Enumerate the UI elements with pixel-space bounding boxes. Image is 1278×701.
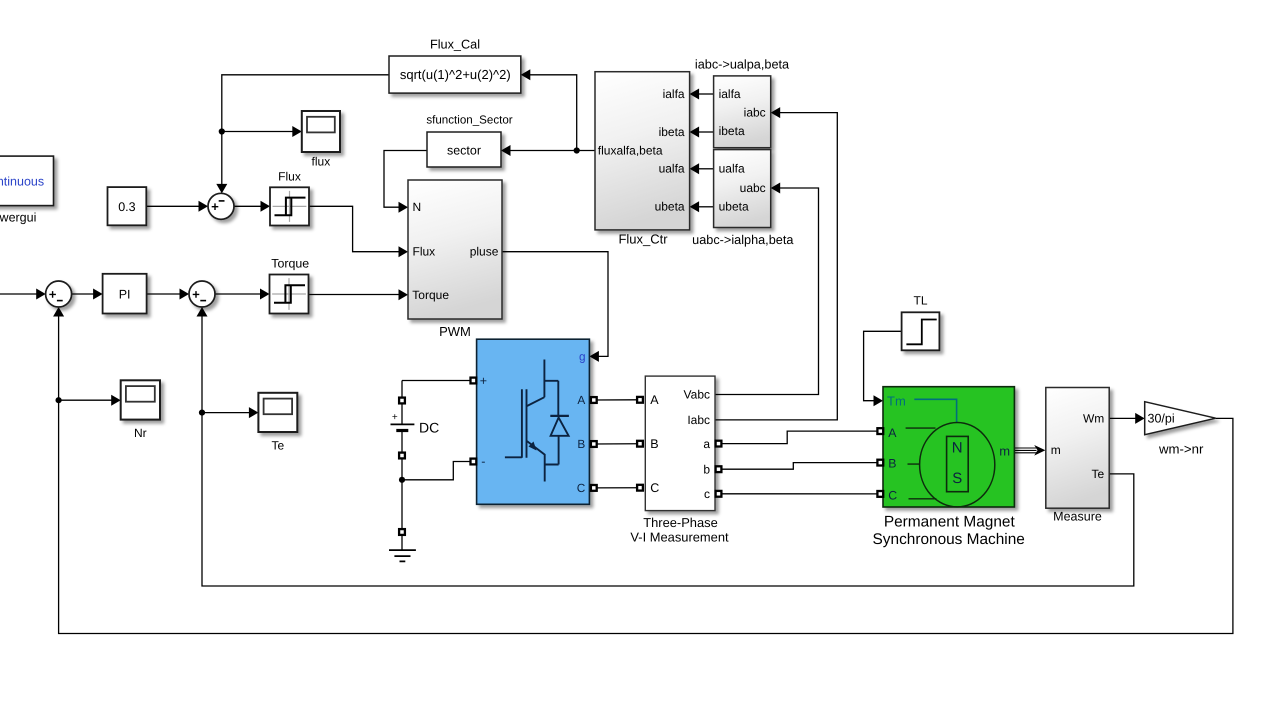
svg-text:N: N bbox=[952, 439, 963, 456]
svg-text:ubeta: ubeta bbox=[655, 200, 685, 214]
svg-text:pluse: pluse bbox=[470, 245, 499, 259]
svg-text:Flux_Cal: Flux_Cal bbox=[430, 38, 480, 52]
svg-text:Torque: Torque bbox=[412, 288, 449, 302]
svg-text:ialfa: ialfa bbox=[663, 87, 685, 101]
svg-text:B: B bbox=[650, 437, 658, 451]
svg-text:ialfa: ialfa bbox=[719, 87, 741, 101]
svg-text:Wm: Wm bbox=[1083, 412, 1104, 426]
svg-text:B: B bbox=[888, 457, 896, 471]
svg-text:Te: Te bbox=[1092, 467, 1105, 481]
svg-text:fluxalfa,beta: fluxalfa,beta bbox=[598, 143, 663, 157]
svg-text:a: a bbox=[703, 437, 710, 451]
svg-text:Te: Te bbox=[271, 438, 284, 452]
svg-text:B: B bbox=[577, 437, 585, 451]
svg-text:ibeta: ibeta bbox=[659, 125, 685, 139]
svg-text:powergui: powergui bbox=[0, 211, 36, 225]
svg-text:m: m bbox=[999, 443, 1010, 458]
svg-text:C: C bbox=[888, 488, 897, 502]
svg-text:uabc->ialpha,beta: uabc->ialpha,beta bbox=[692, 233, 794, 247]
svg-text:0.3: 0.3 bbox=[118, 200, 135, 214]
svg-text:sector: sector bbox=[447, 144, 481, 158]
svg-text:iabc: iabc bbox=[744, 105, 766, 119]
svg-text:A: A bbox=[650, 393, 659, 407]
svg-text:b: b bbox=[703, 462, 710, 476]
svg-text:Flux: Flux bbox=[278, 170, 301, 184]
svg-text:uabc: uabc bbox=[740, 181, 766, 195]
svg-text:Torque: Torque bbox=[271, 257, 309, 271]
svg-text:Vabc: Vabc bbox=[684, 388, 710, 402]
svg-text:iabc->ualpa,beta: iabc->ualpa,beta bbox=[695, 58, 790, 72]
svg-text:+: + bbox=[480, 374, 487, 388]
svg-text:ubeta: ubeta bbox=[719, 199, 749, 213]
svg-text:C: C bbox=[577, 481, 586, 495]
svg-text:S: S bbox=[952, 470, 962, 487]
svg-text:ualfa: ualfa bbox=[719, 161, 745, 175]
svg-text:wm->nr: wm->nr bbox=[1158, 442, 1204, 457]
svg-text:C: C bbox=[650, 481, 659, 495]
svg-text:-: - bbox=[481, 454, 485, 468]
svg-text:30/pi: 30/pi bbox=[1148, 412, 1175, 426]
svg-text:Continuous: Continuous bbox=[0, 175, 44, 189]
svg-text:A: A bbox=[888, 426, 897, 440]
svg-text:TL: TL bbox=[913, 294, 927, 308]
svg-text:Nr: Nr bbox=[134, 426, 147, 440]
svg-text:Tm: Tm bbox=[887, 393, 906, 408]
svg-text:sqrt(u(1)^2+u(2)^2): sqrt(u(1)^2+u(2)^2) bbox=[400, 67, 511, 82]
svg-text:ualfa: ualfa bbox=[659, 162, 685, 176]
svg-text:N: N bbox=[413, 200, 422, 214]
svg-text:sfunction_Sector: sfunction_Sector bbox=[426, 114, 512, 127]
svg-text:V-I Measurement: V-I Measurement bbox=[630, 530, 729, 545]
svg-text:m: m bbox=[1051, 443, 1061, 457]
svg-text:Iabc: Iabc bbox=[687, 413, 710, 427]
svg-text:flux: flux bbox=[312, 155, 331, 169]
svg-text:Synchronous Machine: Synchronous Machine bbox=[873, 531, 1025, 548]
svg-text:A: A bbox=[577, 393, 585, 407]
svg-text:ibeta: ibeta bbox=[719, 124, 745, 138]
svg-text:Permanent Magnet: Permanent Magnet bbox=[884, 513, 1016, 530]
svg-text:Flux_Ctr: Flux_Ctr bbox=[618, 231, 668, 246]
svg-text:+: + bbox=[392, 412, 398, 423]
svg-text:Flux: Flux bbox=[413, 245, 436, 259]
svg-text:c: c bbox=[704, 487, 710, 501]
svg-text:Three-Phase: Three-Phase bbox=[643, 515, 718, 530]
svg-text:g: g bbox=[579, 349, 586, 363]
svg-text:PWM: PWM bbox=[439, 324, 471, 339]
svg-text:PI: PI bbox=[119, 287, 131, 301]
svg-text:DC: DC bbox=[419, 420, 439, 436]
svg-text:Measure: Measure bbox=[1053, 509, 1102, 523]
